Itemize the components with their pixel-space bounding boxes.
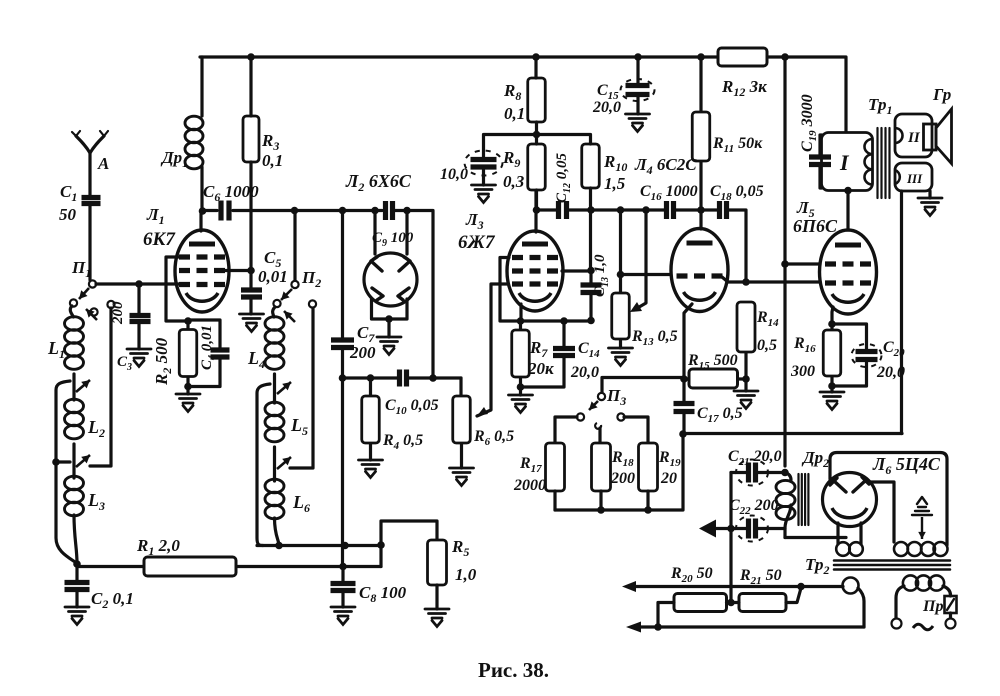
svg-text:50: 50 — [59, 205, 77, 224]
svg-text:2000: 2000 — [513, 477, 546, 494]
svg-text:20,0: 20,0 — [592, 99, 621, 116]
svg-text:I: I — [839, 150, 850, 175]
svg-text:200: 200 — [110, 301, 126, 325]
svg-text:Пр: Пр — [922, 598, 943, 615]
svg-text:300: 300 — [790, 363, 815, 380]
svg-text:Л6 5Ц4С: Л6 5Ц4С — [872, 454, 941, 477]
svg-text:200: 200 — [349, 343, 376, 362]
svg-text:III: III — [906, 171, 923, 186]
svg-text:6Ж7: 6Ж7 — [458, 232, 496, 253]
svg-text:0,1: 0,1 — [262, 151, 283, 170]
svg-text:20к: 20к — [527, 359, 554, 378]
svg-text:0,5: 0,5 — [757, 337, 777, 354]
svg-text:C2 0,1: C2 0,1 — [91, 589, 134, 611]
svg-text:6К7: 6К7 — [143, 229, 176, 250]
svg-text:C6 1000: C6 1000 — [203, 182, 259, 204]
svg-text:R1 2,0: R1 2,0 — [136, 536, 180, 558]
svg-text:20: 20 — [660, 470, 677, 487]
svg-text:Гр: Гр — [932, 85, 951, 104]
svg-text:R2 500: R2 500 — [152, 337, 174, 386]
svg-text:1,0: 1,0 — [455, 565, 477, 584]
svg-text:Рис. 38.: Рис. 38. — [478, 658, 549, 682]
svg-text:6П6С: 6П6С — [793, 216, 838, 236]
svg-text:C8 100: C8 100 — [359, 583, 407, 605]
svg-text:200: 200 — [610, 470, 635, 487]
svg-text:Л4 6С2С: Л4 6С2С — [634, 155, 697, 177]
svg-text:1,5: 1,5 — [604, 174, 626, 193]
svg-text:A: A — [97, 154, 109, 173]
svg-text:II: II — [907, 130, 921, 146]
svg-text:0,1: 0,1 — [504, 104, 525, 123]
svg-text:0,01: 0,01 — [258, 267, 288, 286]
svg-text:0,3: 0,3 — [503, 172, 525, 191]
svg-text:Л2 6Х6С: Л2 6Х6С — [345, 171, 412, 194]
svg-text:20,0: 20,0 — [570, 364, 599, 381]
svg-text:10,0: 10,0 — [440, 166, 468, 183]
svg-text:20,0: 20,0 — [876, 364, 905, 381]
